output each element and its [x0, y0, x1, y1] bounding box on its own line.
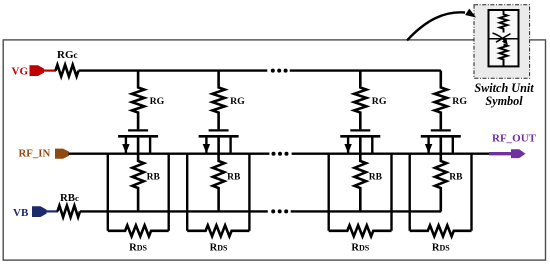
svg-text:RG: RG [150, 96, 165, 107]
wire RDS left drop (unit 3) [328, 154, 330, 231]
wire RDS right drop (unit 2) [248, 154, 250, 231]
svg-text:RDS: RDS [129, 243, 147, 254]
wire RDS left drop (unit 4) [409, 154, 411, 231]
svg-text:RDS: RDS [210, 243, 228, 254]
resistor RB (unit 2) with body lead wire [213, 136, 225, 211]
inset symbol midline [489, 38, 519, 40]
svg-text:RGc: RGc [57, 49, 78, 61]
resistor RBc [58, 206, 81, 218]
dots VG bus ellipsis [271, 69, 288, 73]
resistor RB (unit 3) with body lead wire [355, 136, 367, 211]
wire RF line left section [69, 152, 270, 154]
resistor RG (unit 3) with gate lead wire [354, 71, 366, 130]
svg-text:RDS: RDS [432, 243, 450, 254]
inset symbol outer rectangle [489, 10, 519, 66]
wire RDS right drop (unit 3) [390, 154, 392, 231]
wire VG bus left section [79, 69, 268, 71]
wire VB line left section [80, 210, 268, 212]
wire VG bus right section [290, 69, 441, 71]
resistor RDS (unit 4) [410, 225, 472, 236]
resistor RG (unit 4) with gate lead wire [435, 71, 447, 130]
RF_IN input tag [55, 149, 69, 159]
wire VB tag to RBc [46, 210, 58, 212]
wire RF line right section [292, 152, 491, 154]
VB input tag [32, 206, 47, 217]
svg-text:Symbol: Symbol [485, 94, 523, 108]
inset symbol switch arrow [493, 33, 508, 45]
svg-text:RDS: RDS [351, 243, 369, 254]
svg-text:RG: RG [452, 96, 467, 107]
svg-text:RF_IN: RF_IN [19, 148, 51, 160]
transistor M1 (series switch FET, unit 1) [118, 130, 158, 153]
svg-text:RBc: RBc [60, 192, 79, 204]
svg-text:RB: RB [147, 173, 161, 183]
RF_OUT output arrow [489, 149, 526, 158]
inset symbol switch cross stroke [496, 34, 511, 43]
transistor M4 (series switch FET, unit 4) [421, 130, 461, 153]
svg-text:RB: RB [369, 173, 383, 183]
resistor RGc [56, 65, 79, 77]
inset symbol top resistor [500, 10, 508, 33]
annotation curved arrow to inset [407, 9, 476, 41]
svg-text:RB: RB [449, 173, 463, 183]
resistor RDS (unit 1) [108, 225, 169, 236]
resistor RDS (unit 3) [329, 225, 392, 236]
wire RDS left drop (unit 1) [107, 154, 109, 231]
resistor RG (unit 2) with gate lead wire [212, 71, 224, 130]
resistor RB (unit 1) with body lead wire [132, 136, 144, 211]
dots RF line ellipsis [272, 152, 289, 156]
svg-text:RG: RG [372, 96, 387, 107]
svg-text:RB: RB [227, 173, 241, 183]
svg-text:VG: VG [12, 65, 29, 77]
wire RDS left drop (unit 2) [186, 154, 188, 231]
transistor M2 (series switch FET, unit 2) [199, 130, 239, 153]
inset symbol bottom resistor [500, 45, 508, 67]
svg-text:Switch Unit: Switch Unit [474, 81, 534, 95]
svg-text:RF_OUT: RF_OUT [492, 133, 537, 145]
wire VG tag to RGc [43, 69, 56, 71]
resistor RG (unit 1) with gate lead wire [132, 71, 144, 130]
wire RDS right drop (unit 1) [167, 154, 169, 231]
resistor RB (unit 4) with body lead wire [435, 136, 447, 211]
VG input tag [30, 65, 45, 76]
wire RDS right drop (unit 4) [470, 154, 472, 231]
svg-text:VB: VB [13, 207, 29, 219]
svg-text:RG: RG [230, 96, 245, 107]
transistor M3 (series switch FET, unit 3) [340, 130, 380, 153]
dots VB line ellipsis [271, 209, 288, 213]
inset dashed box (switch unit symbol) [474, 5, 530, 79]
resistor RDS (unit 2) [187, 225, 249, 236]
wire VB line right section [291, 210, 442, 212]
